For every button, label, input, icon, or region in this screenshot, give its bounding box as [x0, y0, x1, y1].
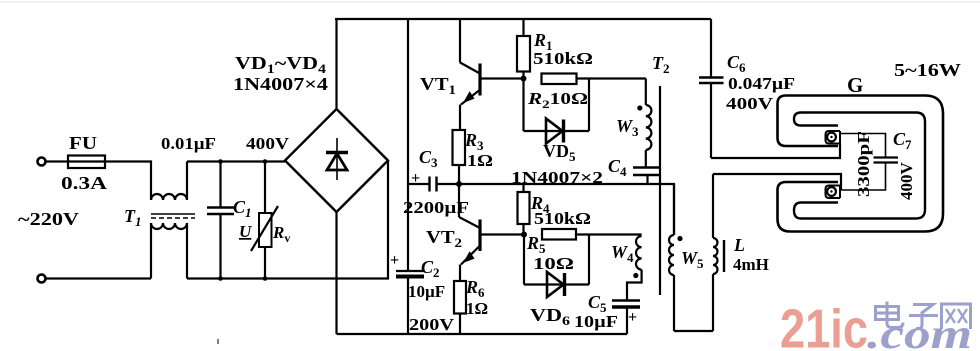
varistor Rv	[251, 162, 278, 279]
svg-text:C3: C3	[419, 147, 438, 170]
svg-text:200V: 200V	[409, 315, 455, 334]
lamp electrode top	[826, 131, 841, 146]
svg-text:1Ω: 1Ω	[467, 151, 493, 170]
resistor R3 1ohm	[453, 130, 466, 184]
winding W5	[669, 184, 674, 331]
capacitor C3 2200uF	[408, 177, 459, 192]
wire mid rail	[459, 184, 674, 235]
svg-text:2200µF: 2200µF	[403, 198, 469, 217]
lamp G outer tube	[778, 96, 944, 232]
lamp electrode bottom	[826, 186, 841, 199]
svg-text:W3: W3	[616, 116, 639, 139]
svg-text:10Ω: 10Ω	[533, 254, 574, 273]
svg-text:C7: C7	[893, 129, 912, 152]
svg-text:3300pF: 3300pF	[854, 131, 873, 197]
T1 core	[151, 214, 195, 218]
svg-text:510kΩ: 510kΩ	[533, 49, 593, 68]
svg-text:1N4007×4: 1N4007×4	[233, 74, 328, 94]
watermark dian character	[876, 302, 904, 328]
svg-text:0.01µF: 0.01µF	[161, 134, 216, 153]
wire W5 to L	[674, 330, 713, 332]
svg-text:R210Ω: R210Ω	[527, 89, 588, 111]
svg-text:C6: C6	[727, 52, 746, 75]
svg-text:L: L	[733, 235, 745, 255]
svg-text:U: U	[239, 222, 252, 241]
capacitor C2 10uF 200V	[396, 271, 424, 334]
svg-text:C1: C1	[233, 197, 252, 220]
lamp G inner tube	[794, 113, 925, 219]
svg-text:VD5: VD5	[543, 141, 576, 164]
svg-text:0.047µF: 0.047µF	[728, 74, 795, 93]
wire bridge top to rail	[335, 19, 337, 109]
capacitor C1 0.01uF	[207, 162, 234, 279]
resistor R4 510k	[518, 184, 530, 235]
node mid junction	[456, 181, 462, 187]
wire fuse to T1	[105, 162, 151, 201]
terminal top	[38, 158, 46, 166]
svg-text:Rv: Rv	[272, 223, 290, 245]
node VT2 base	[521, 232, 527, 238]
svg-text:G: G	[847, 73, 863, 97]
wire top input	[46, 160, 68, 162]
diode VD6	[524, 235, 589, 298]
resistor R2 10ohm	[542, 74, 646, 85]
transistor VT1	[460, 19, 524, 130]
border artifact bottom tick	[217, 339, 219, 344]
terminal bottom	[38, 275, 46, 283]
svg-text:T2: T2	[652, 53, 670, 76]
winding W3	[646, 79, 652, 168]
svg-text:C4: C4	[608, 156, 627, 179]
wire top rail	[335, 18, 711, 20]
wire DC bus left	[407, 19, 409, 271]
svg-text:+: +	[628, 309, 637, 326]
bridge rectifier VD1-VD4 diamond	[285, 109, 388, 212]
svg-text:510kΩ: 510kΩ	[534, 209, 591, 228]
capacitor C4	[633, 168, 661, 185]
node W5 dot	[677, 236, 682, 241]
svg-text:+: +	[411, 170, 420, 187]
resistor R5 10ohm	[542, 229, 642, 240]
capacitor C6 0.047uF	[699, 19, 724, 158]
resistor R1 510k	[517, 19, 530, 79]
svg-text:VD1~VD4: VD1~VD4	[235, 53, 327, 76]
svg-text:1N4007×2: 1N4007×2	[511, 168, 603, 187]
svg-text:+: +	[390, 252, 399, 269]
winding W4	[627, 236, 642, 300]
svg-text:.com: .com	[867, 312, 972, 351]
node Rv bottom	[263, 276, 268, 281]
svg-text:400V: 400V	[726, 94, 774, 113]
svg-text:C2: C2	[421, 257, 440, 280]
capacitor C7 3300pF	[840, 134, 898, 191]
inductor L 4mH	[713, 174, 724, 331]
node W4 dot	[633, 273, 638, 278]
transformer T1 bottom winding	[151, 223, 187, 229]
wire bridge bottom to rail	[335, 212, 337, 334]
wire lamp feed bottom	[713, 174, 841, 190]
watermark wang character	[942, 304, 971, 329]
svg-text:4mH: 4mH	[733, 255, 769, 274]
svg-text:W4: W4	[611, 242, 634, 265]
node C1 top	[218, 159, 223, 164]
border artifact top	[0, 1, 980, 3]
bridge diode symbol	[326, 138, 348, 180]
capacitor C5 10uF	[612, 301, 640, 335]
svg-text:VD6: VD6	[530, 305, 571, 328]
wire bottom input	[46, 277, 151, 279]
node VT1 base	[521, 76, 527, 82]
svg-text:0.3A: 0.3A	[61, 173, 107, 193]
svg-text:400V: 400V	[897, 162, 916, 201]
transformer T1 top winding	[151, 162, 187, 201]
svg-text:~220V: ~220V	[18, 209, 79, 229]
watermark zi character	[909, 305, 938, 329]
svg-text:VT2: VT2	[426, 227, 462, 250]
resistor R6 1ohm	[454, 281, 466, 334]
svg-text:R3: R3	[464, 130, 484, 153]
wire T1 legs bottom	[151, 223, 187, 279]
svg-text:21ic: 21ic	[780, 298, 868, 351]
svg-text:1Ω: 1Ω	[466, 299, 488, 318]
diode VD5	[524, 79, 590, 144]
svg-text:10µF: 10µF	[574, 312, 618, 331]
wire lamp feed top	[711, 144, 840, 159]
svg-text:VT1: VT1	[420, 74, 456, 97]
svg-text:W5: W5	[681, 248, 704, 271]
transistor VT2	[459, 184, 524, 281]
wire T1 to bridge top	[187, 160, 285, 162]
node Rv top	[263, 159, 268, 164]
node W3 dot	[637, 105, 642, 110]
svg-text:T1: T1	[124, 206, 142, 229]
svg-text:400V: 400V	[246, 134, 290, 153]
fuse FU	[68, 156, 105, 169]
wire bottom rail	[337, 333, 628, 335]
svg-text:10µF: 10µF	[408, 282, 445, 301]
wire bottom to bridge	[187, 161, 388, 279]
svg-text:R6: R6	[465, 277, 485, 300]
transformer T2 core	[659, 86, 661, 295]
svg-text:5~16W: 5~16W	[894, 60, 961, 80]
svg-text:FU: FU	[69, 133, 97, 153]
node C1 bottom	[218, 276, 223, 281]
